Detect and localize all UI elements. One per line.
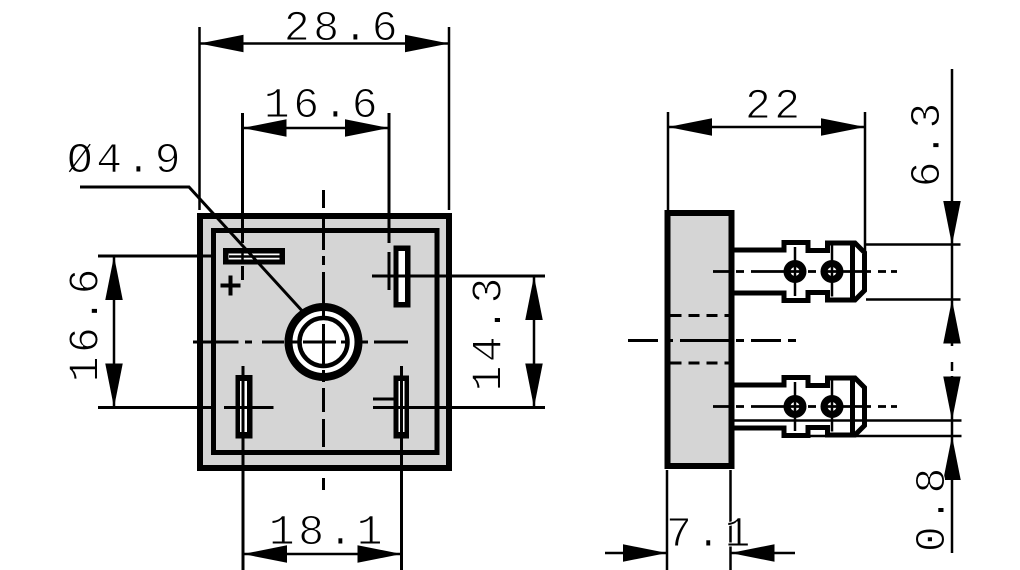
dimension 16.6 left vertical bbox=[62, 256, 123, 408]
upper terminal centerline bbox=[713, 270, 897, 273]
chain arrow down bbox=[943, 377, 961, 421]
slot centerline y=276 right bbox=[372, 275, 545, 278]
slot extension x=243 (bottom-left) bbox=[242, 366, 245, 570]
plus polarity mark bbox=[221, 276, 241, 296]
dimension 7.1 bbox=[605, 470, 795, 570]
terminal slot top-right bbox=[394, 246, 411, 308]
thin tab line A bbox=[730, 419, 962, 422]
dimension 18.1 bottom bbox=[243, 508, 402, 563]
terminal slot bottom-left bbox=[236, 375, 253, 439]
dimension 16.6 top bbox=[243, 81, 390, 137]
right dimension chain line bbox=[951, 69, 954, 346]
dimension 22 bbox=[668, 82, 865, 258]
lower faston terminal bbox=[732, 378, 865, 436]
center hole outer circle bbox=[289, 307, 359, 377]
upper faston terminal bbox=[732, 243, 865, 301]
horizontal centerline bbox=[193, 341, 408, 344]
leader line for hole diameter bbox=[80, 187, 305, 314]
svg-text:Ø4.9: Ø4.9 bbox=[67, 136, 184, 185]
chain arrow up 0.8 bbox=[943, 436, 961, 480]
body outer square bbox=[200, 216, 449, 468]
vertical centerline bbox=[322, 190, 325, 490]
hidden hole lines bbox=[671, 316, 729, 364]
svg-text:18.1: 18.1 bbox=[269, 508, 386, 557]
svg-text:0.8: 0.8 bbox=[908, 464, 957, 552]
svg-text:7.1: 7.1 bbox=[666, 510, 754, 559]
svg-text:16.6: 16.6 bbox=[264, 81, 381, 130]
slot centerline y=407.5 segments bbox=[98, 406, 545, 409]
side body bbox=[668, 213, 732, 466]
dimension 14.3 right vertical bbox=[465, 274, 543, 407]
thin tab line B bbox=[784, 435, 962, 438]
svg-text:22: 22 bbox=[745, 82, 804, 131]
svg-text:28.6: 28.6 bbox=[284, 4, 401, 53]
terminal slot bottom-right bbox=[394, 376, 410, 439]
body inner square bbox=[214, 231, 438, 453]
slot extension x=401.5 (bottom-right) bbox=[400, 366, 403, 570]
slot centerline/extension x=389 bbox=[388, 113, 391, 290]
lower terminal centerline bbox=[713, 405, 897, 408]
body horizontal centerline bbox=[628, 339, 796, 342]
svg-text:14.3: 14.3 bbox=[465, 274, 514, 391]
dimension 28.6 bbox=[200, 4, 450, 210]
center hole inner circle bbox=[300, 318, 348, 366]
terminal slot top-left bbox=[223, 248, 285, 265]
slot centerline/extension x=242.5 bbox=[241, 113, 244, 280]
svg-text:16.6: 16.6 bbox=[62, 265, 111, 382]
chain arrow up bbox=[943, 300, 961, 344]
short mark left of bottom-right slot bbox=[373, 398, 394, 401]
svg-text:6.3: 6.3 bbox=[903, 99, 952, 187]
extension lines 6.3 bbox=[866, 245, 961, 300]
chain arrow down 6.3 bbox=[943, 201, 961, 245]
slot centerline y=256 left bbox=[98, 255, 216, 258]
